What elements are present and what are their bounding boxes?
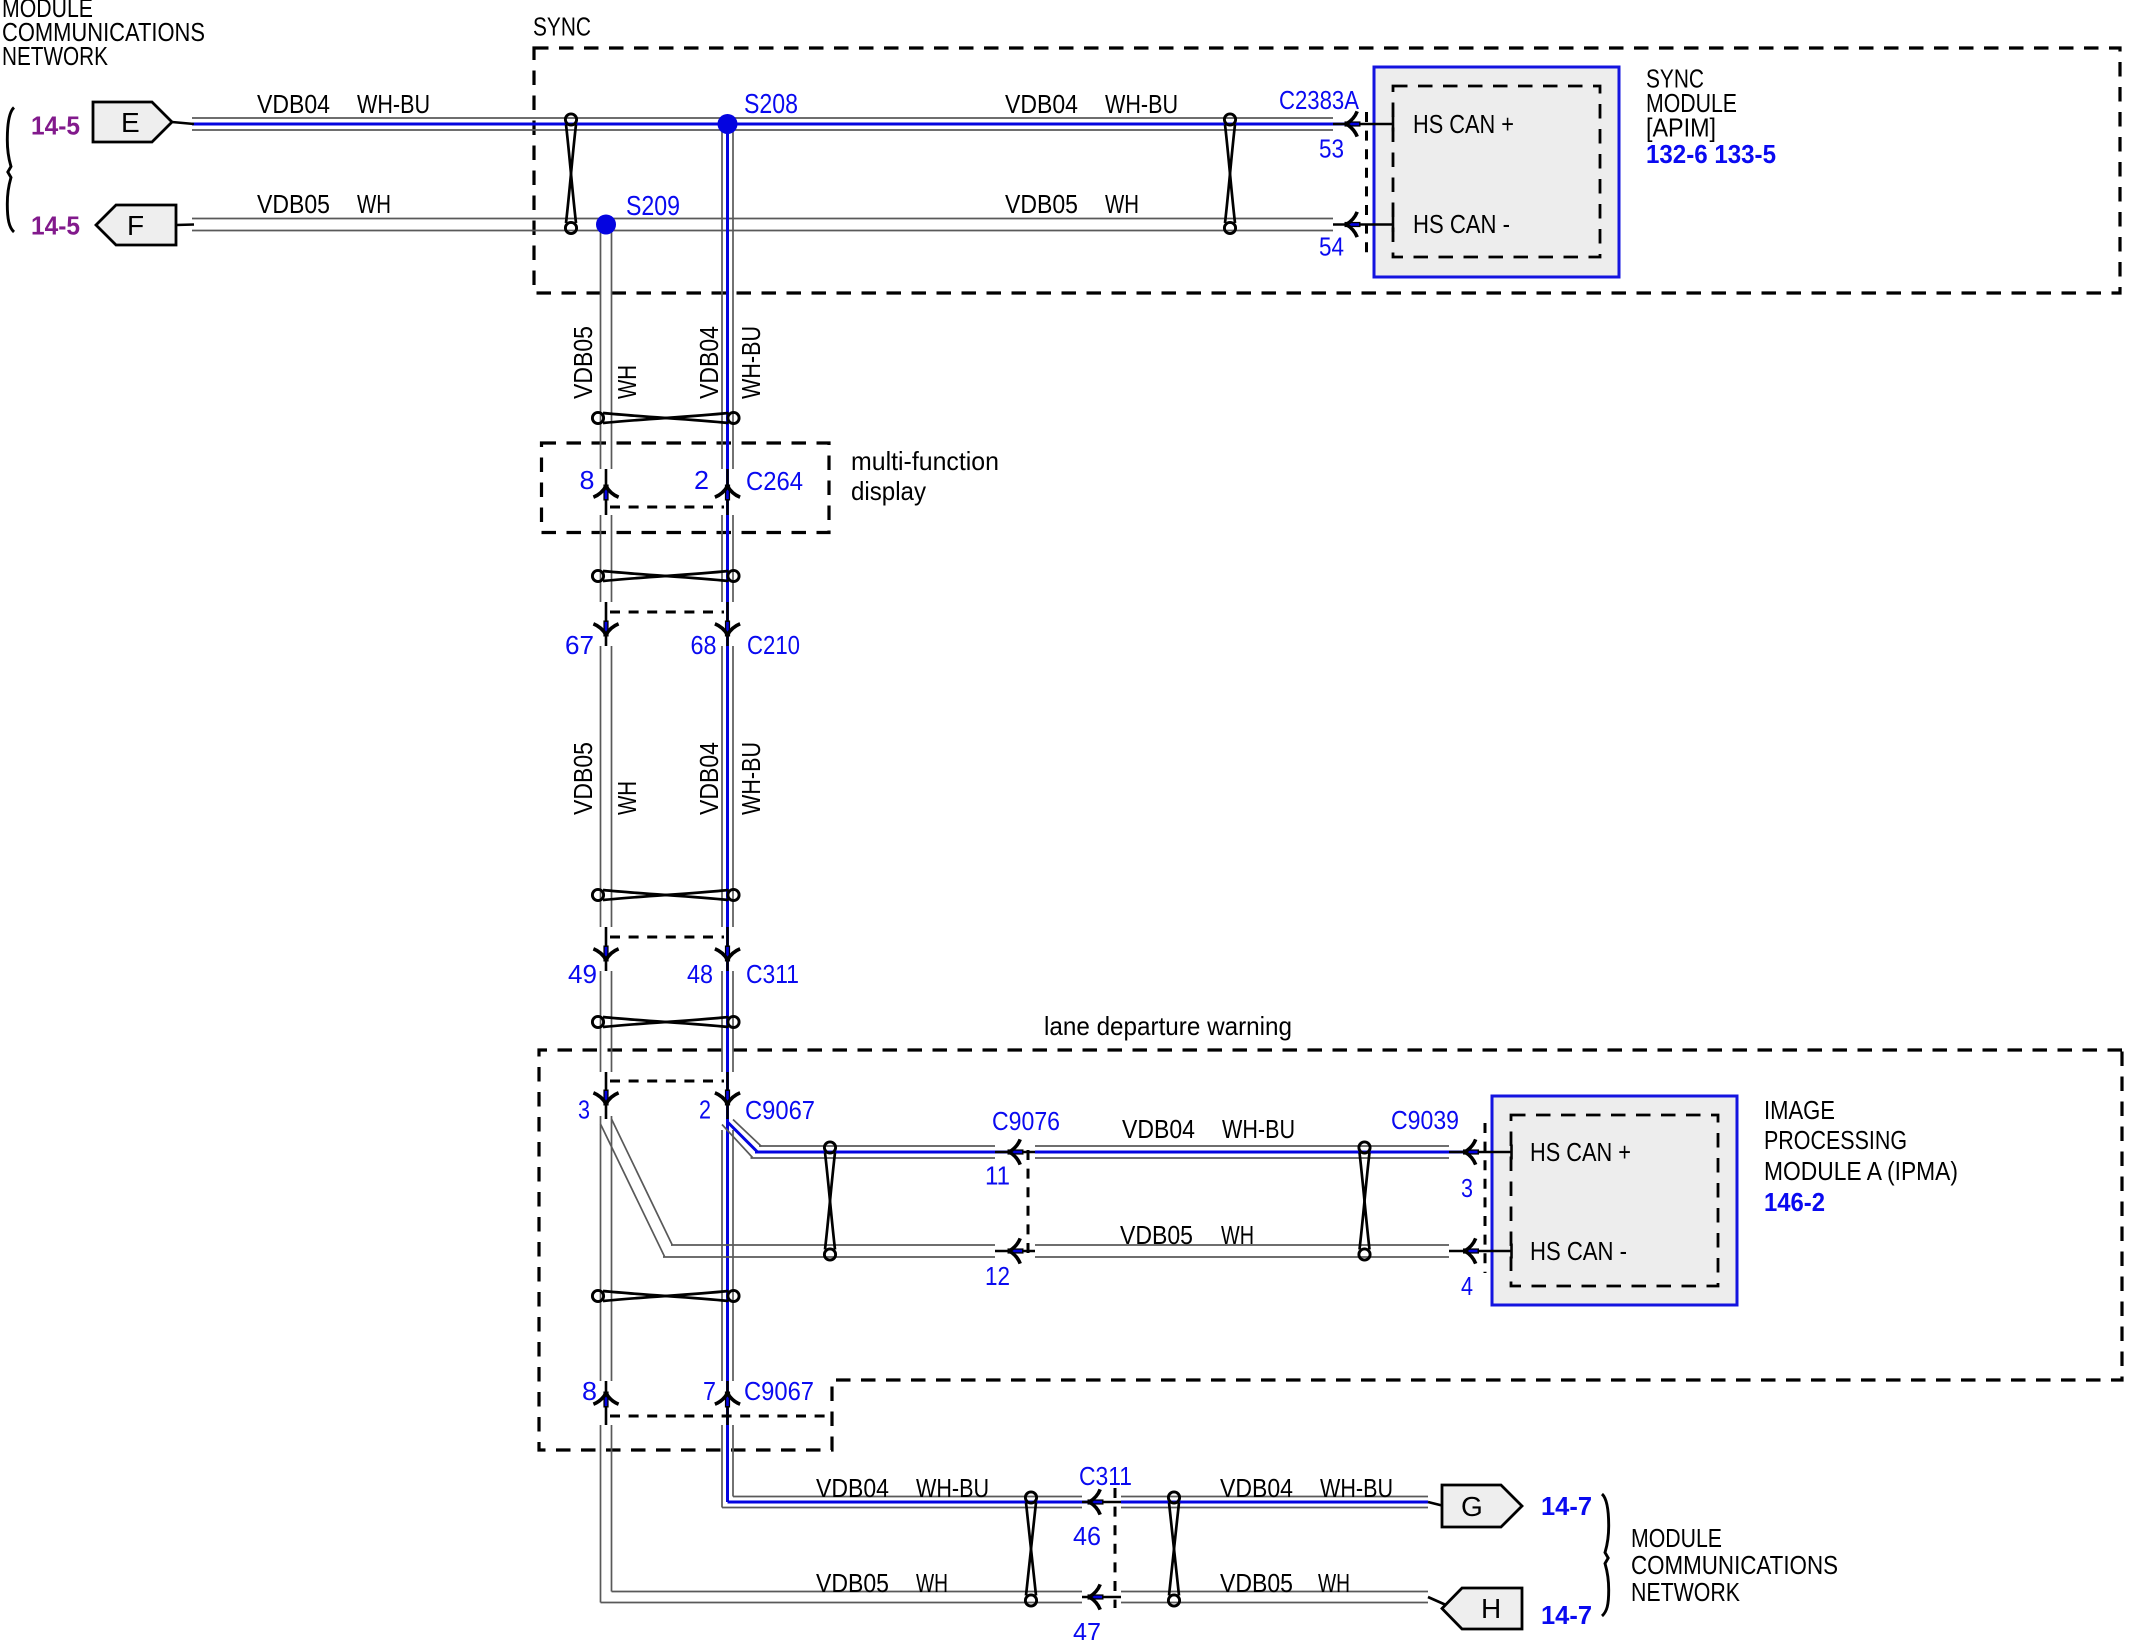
svg-text:VDB05: VDB05 — [1220, 1568, 1293, 1598]
svg-text:WH: WH — [916, 1568, 948, 1598]
svg-text:VDB05: VDB05 — [257, 189, 330, 219]
svg-text:SYNC: SYNC — [533, 12, 591, 42]
svg-text:MODULE: MODULE — [1631, 1523, 1722, 1553]
svg-text:PROCESSING: PROCESSING — [1764, 1125, 1907, 1155]
svg-text:VDB04: VDB04 — [257, 89, 330, 119]
svg-text:53: 53 — [1319, 133, 1344, 163]
svg-text:WH: WH — [612, 365, 642, 399]
svg-text:VDB05: VDB05 — [568, 326, 598, 399]
svg-text:lane departure warning: lane departure warning — [1044, 1011, 1292, 1041]
svg-text:[APIM]: [APIM] — [1646, 112, 1716, 142]
svg-text:14-7: 14-7 — [1541, 1600, 1592, 1630]
svg-text:H: H — [1481, 1593, 1501, 1624]
svg-text:67: 67 — [565, 630, 594, 660]
svg-text:47: 47 — [1073, 1617, 1101, 1640]
svg-text:C9076: C9076 — [992, 1106, 1060, 1136]
svg-text:WH-BU: WH-BU — [357, 89, 430, 119]
svg-text:VDB05: VDB05 — [816, 1568, 889, 1598]
svg-text:VDB04: VDB04 — [694, 742, 724, 815]
svg-text:display: display — [851, 476, 926, 506]
svg-text:C210: C210 — [747, 630, 800, 660]
svg-text:C9067: C9067 — [744, 1376, 814, 1406]
svg-text:WH: WH — [612, 781, 642, 815]
svg-text:E: E — [121, 107, 140, 138]
svg-text:46: 46 — [1073, 1521, 1101, 1551]
svg-text:F: F — [127, 210, 144, 241]
svg-text:VDB04: VDB04 — [1220, 1473, 1293, 1503]
svg-text:C9039: C9039 — [1391, 1105, 1459, 1135]
svg-text:WH-BU: WH-BU — [1320, 1473, 1393, 1503]
svg-text:VDB05: VDB05 — [568, 742, 598, 815]
svg-text:HS CAN -: HS CAN - — [1530, 1236, 1627, 1266]
svg-text:8: 8 — [580, 465, 595, 495]
svg-text:7: 7 — [703, 1376, 716, 1406]
svg-text:VDB05: VDB05 — [1005, 189, 1078, 219]
svg-text:WH: WH — [1221, 1220, 1254, 1250]
svg-text:146-2: 146-2 — [1764, 1187, 1825, 1217]
svg-text:WH: WH — [357, 189, 391, 219]
svg-text:HS CAN +: HS CAN + — [1530, 1137, 1631, 1167]
svg-text:VDB04: VDB04 — [694, 326, 724, 399]
svg-text:WH: WH — [1318, 1568, 1350, 1598]
svg-text:11: 11 — [985, 1161, 1010, 1191]
svg-text:C9067: C9067 — [745, 1095, 815, 1125]
svg-text:12: 12 — [985, 1261, 1010, 1291]
svg-text:IMAGE: IMAGE — [1764, 1095, 1835, 1125]
svg-text:132-6 133-5: 132-6 133-5 — [1646, 139, 1776, 169]
svg-text:3: 3 — [578, 1095, 590, 1125]
svg-text:8: 8 — [582, 1376, 597, 1406]
svg-text:WH-BU: WH-BU — [1222, 1114, 1295, 1144]
svg-text:49: 49 — [568, 959, 597, 989]
svg-text:2: 2 — [699, 1095, 711, 1125]
svg-text:2: 2 — [694, 465, 709, 495]
svg-text:14-7: 14-7 — [1541, 1491, 1592, 1521]
svg-text:VDB04: VDB04 — [1122, 1114, 1195, 1144]
svg-text:4: 4 — [1461, 1271, 1473, 1301]
svg-text:NETWORK: NETWORK — [1631, 1577, 1741, 1607]
svg-text:G: G — [1461, 1491, 1483, 1522]
svg-text:WH-BU: WH-BU — [736, 326, 766, 399]
svg-text:NETWORK: NETWORK — [2, 41, 109, 71]
svg-text:14-5: 14-5 — [31, 111, 80, 141]
svg-text:3: 3 — [1461, 1173, 1473, 1203]
svg-text:VDB04: VDB04 — [1005, 89, 1078, 119]
svg-text:HS CAN +: HS CAN + — [1413, 109, 1514, 139]
svg-text:68: 68 — [691, 630, 717, 660]
svg-text:WH-BU: WH-BU — [736, 742, 766, 815]
svg-text:C264: C264 — [746, 466, 803, 496]
svg-text:WH: WH — [1105, 189, 1139, 219]
svg-text:14-5: 14-5 — [31, 211, 80, 241]
svg-text:multi-function: multi-function — [851, 446, 999, 476]
svg-text:S209: S209 — [626, 190, 680, 221]
svg-text:C311: C311 — [746, 959, 799, 989]
svg-text:WH-BU: WH-BU — [1105, 89, 1178, 119]
svg-text:VDB05: VDB05 — [1120, 1220, 1193, 1250]
svg-text:54: 54 — [1319, 232, 1344, 262]
svg-text:WH-BU: WH-BU — [916, 1473, 989, 1503]
svg-text:S208: S208 — [744, 88, 798, 119]
svg-text:MODULE A (IPMA): MODULE A (IPMA) — [1764, 1156, 1958, 1186]
svg-text:48: 48 — [687, 959, 713, 989]
svg-text:C311: C311 — [1079, 1461, 1132, 1491]
svg-text:COMMUNICATIONS: COMMUNICATIONS — [1631, 1550, 1838, 1580]
svg-text:HS CAN -: HS CAN - — [1413, 209, 1510, 239]
svg-text:C2383A: C2383A — [1279, 85, 1360, 115]
svg-text:VDB04: VDB04 — [816, 1473, 889, 1503]
